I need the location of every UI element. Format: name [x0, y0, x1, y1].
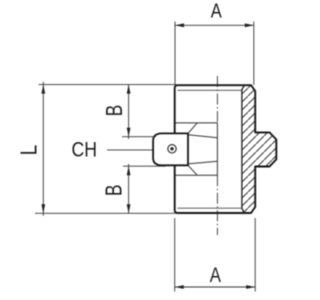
svg-text:A: A — [211, 0, 222, 23]
svg-text:L: L — [16, 145, 42, 156]
svg-text:B: B — [101, 185, 127, 197]
svg-text:CH: CH — [72, 138, 98, 162]
svg-text:A: A — [210, 263, 222, 287]
svg-text:B: B — [101, 105, 127, 117]
